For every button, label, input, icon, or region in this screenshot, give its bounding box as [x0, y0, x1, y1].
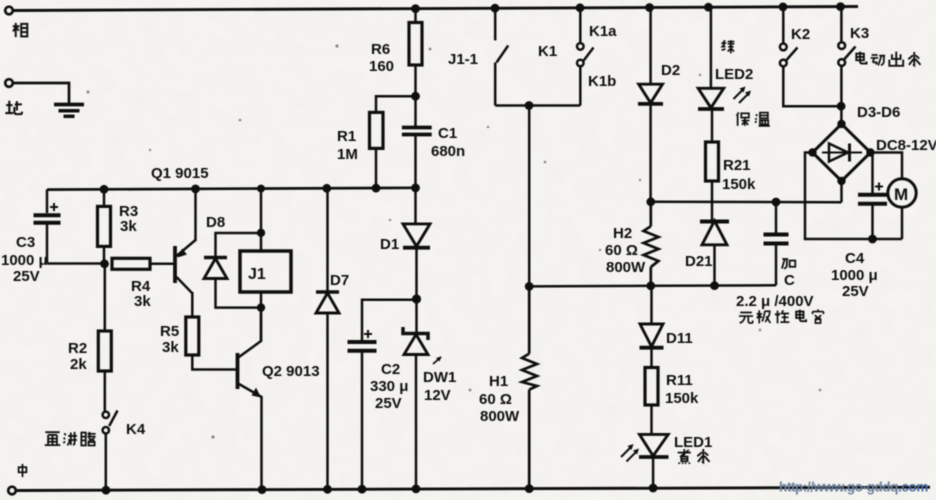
label R3: [119, 203, 138, 235]
label C3 value: [1, 234, 48, 285]
svg-text:25V: 25V: [375, 395, 402, 412]
node C2 bottom rail: [358, 485, 367, 494]
label 煮水: [678, 449, 710, 464]
node R6 bottom: [411, 92, 420, 101]
resistor R21: [706, 142, 719, 221]
svg-text:C3: C3: [16, 234, 35, 251]
svg-text:D11: D11: [666, 330, 693, 347]
svg-text:2k: 2k: [70, 356, 87, 373]
svg-text:R2: R2: [68, 340, 87, 357]
wire supply rail y189: [47, 188, 417, 190]
svg-text:800W: 800W: [480, 408, 520, 425]
switch K2: [780, 7, 841, 106]
wire top rail: [13, 7, 859, 11]
transistor Q1: [175, 189, 196, 317]
label 加C: [782, 259, 795, 289]
label 电动出水: [856, 52, 920, 67]
capacitor C5 (2.2u/400V): [764, 202, 789, 285]
node K2/K3 join: [837, 102, 846, 111]
diode D2: [638, 8, 663, 202]
node dot top rail J1-1: [491, 4, 500, 13]
svg-text:D2: D2: [661, 62, 680, 79]
resistor R2: [98, 264, 111, 412]
node dots on supply rail: [100, 184, 420, 194]
switch K4: [103, 411, 118, 491]
transistor Q2: [238, 308, 262, 490]
ground: [54, 105, 84, 117]
LED LED1: [621, 434, 669, 487]
wire node to R1: [376, 96, 416, 112]
node D7 bottom rail: [323, 485, 332, 494]
svg-text:C1: C1: [438, 125, 457, 142]
capacitor C4: [858, 152, 887, 239]
label 无极性电容: [739, 309, 823, 323]
svg-text:R21: R21: [723, 157, 751, 174]
label H2: [605, 225, 646, 276]
wire J1-1/K1 bottom: [495, 104, 580, 107]
svg-text:J1: J1: [248, 266, 266, 283]
wire to ground: [13, 83, 69, 103]
svg-text:R11: R11: [666, 372, 693, 389]
node J1 bottom: [257, 303, 265, 311]
capacitor C3: [34, 190, 61, 264]
svg-text:1000 μ: 1000 μ: [831, 267, 878, 284]
label 再沸腾: [45, 432, 96, 446]
heater H1: [522, 286, 537, 488]
label 地: [5, 101, 22, 114]
diode D7: [316, 189, 339, 490]
svg-text:D1: D1: [380, 236, 399, 253]
svg-text:25V: 25V: [13, 268, 40, 285]
diode D8: [204, 233, 261, 308]
node DW1 bottom rail: [412, 485, 421, 494]
svg-text:M: M: [894, 185, 908, 204]
terminal 地 (earth): [5, 79, 13, 87]
relay coil J1: [240, 189, 291, 342]
terminal 相 (phase): [5, 7, 13, 15]
svg-text:K4: K4: [126, 421, 146, 438]
label C2: [370, 361, 408, 412]
label DW1: [423, 369, 456, 404]
svg-text:1000 μ: 1000 μ: [1, 252, 48, 269]
node Q2 emitter on bottom rail: [258, 485, 267, 494]
label 保温: [737, 112, 770, 126]
label R1: [337, 128, 358, 163]
diode D11: [640, 286, 664, 368]
wire H1 column upper: [528, 106, 531, 287]
resistor R11: [645, 368, 658, 435]
svg-text:D3-D6: D3-D6: [857, 104, 900, 121]
node dot top rail K3: [836, 2, 845, 11]
svg-text:C2: C2: [381, 361, 400, 378]
node D1 bottom / C2 top: [412, 294, 421, 303]
node LED1 bottom rail: [649, 484, 658, 493]
svg-text:3k: 3k: [162, 339, 179, 356]
label R6: [369, 41, 394, 75]
svg-text:K3: K3: [850, 25, 869, 42]
svg-text:C: C: [784, 272, 795, 289]
svg-text:R1: R1: [337, 128, 356, 145]
svg-text:1M: 1M: [337, 146, 358, 163]
label R2: [68, 340, 87, 373]
wire bridge right to motor top: [871, 153, 903, 180]
node J1 top: [257, 229, 265, 237]
bridge rectifier D3-D6: [813, 124, 871, 181]
svg-text:K1: K1: [538, 43, 557, 60]
svg-text:3k: 3k: [134, 293, 151, 310]
node dot top rail D2: [645, 3, 654, 12]
svg-text:LED2: LED2: [715, 66, 753, 83]
zener diode DW1: [403, 300, 442, 489]
node H1 bottom rail: [525, 484, 534, 493]
svg-text:680n: 680n: [431, 143, 465, 160]
svg-text:K1b: K1b: [588, 73, 616, 90]
diode D1: [403, 188, 430, 298]
wire C3 bottom to node: [47, 262, 104, 265]
terminal 中 (neutral): [8, 487, 16, 495]
svg-text:60 Ω: 60 Ω: [479, 391, 512, 408]
svg-text:C4: C4: [845, 250, 865, 267]
node dot top rail K1: [576, 3, 585, 12]
svg-text:2.2 μ /400V: 2.2 μ /400V: [736, 293, 814, 310]
node D2 bottom: [646, 197, 655, 206]
wire bridge bottom to rail: [840, 181, 843, 202]
svg-text:K2: K2: [791, 26, 810, 43]
LED LED2: [698, 7, 751, 142]
capacitor C1: [402, 128, 432, 188]
svg-text:150k: 150k: [722, 176, 756, 193]
capacitor C2: [348, 330, 377, 489]
svg-text:R6: R6: [371, 41, 390, 58]
label C1: [431, 125, 465, 160]
svg-text:LED1: LED1: [674, 434, 712, 451]
wire rail y286: [529, 285, 776, 286]
svg-text:160: 160: [369, 58, 394, 75]
label R5: [160, 323, 179, 356]
svg-text:25V: 25V: [842, 283, 869, 300]
switch K3: [838, 7, 855, 123]
node H2 bottom: [646, 281, 655, 290]
switch K1: [577, 8, 594, 106]
label R21: [722, 157, 756, 193]
label 绿: [722, 40, 735, 53]
wire bottom rail: [16, 487, 931, 490]
svg-text:12V: 12V: [424, 387, 451, 404]
svg-text:Q1 9015: Q1 9015: [151, 165, 209, 182]
label H1: [479, 373, 520, 425]
resistor R4: [112, 258, 174, 269]
heater H2: [644, 202, 659, 286]
label 中: [19, 464, 27, 477]
svg-text:60 Ω: 60 Ω: [605, 242, 638, 259]
svg-text:J1-1: J1-1: [448, 51, 478, 68]
node A (R3/R4/C3/R2 junction): [100, 259, 109, 268]
resistor R5: [186, 317, 236, 370]
node dot top rail LED2: [704, 3, 713, 12]
node C4 bottom: [868, 235, 877, 244]
wire to C2: [362, 300, 417, 341]
svg-text:3k: 3k: [120, 218, 137, 235]
node K4 on bottom rail: [102, 486, 111, 495]
bridge corner nodes: [808, 120, 874, 185]
svg-text:http://www.go-gddq.com: http://www.go-gddq.com: [779, 480, 928, 495]
node D21 bottom: [710, 281, 719, 290]
svg-text:K1a: K1a: [589, 23, 617, 40]
zener diode D21: [700, 221, 729, 286]
resistor R3: [98, 190, 111, 264]
label R11: [665, 372, 699, 407]
svg-text:D8: D8: [206, 214, 225, 231]
label 相: [13, 23, 28, 37]
svg-text:H1: H1: [489, 373, 508, 390]
node C5 top: [772, 198, 781, 207]
svg-text:R5: R5: [160, 323, 179, 340]
resistor R1: [370, 112, 384, 188]
node dot top rail R6: [411, 4, 420, 13]
label C4: [831, 250, 878, 300]
svg-text:150k: 150k: [665, 390, 699, 407]
svg-text:330 μ: 330 μ: [370, 378, 408, 395]
node H1 mid: [525, 282, 534, 291]
wire rail y202: [651, 201, 842, 204]
motor M: [888, 179, 916, 239]
svg-text:D21: D21: [685, 253, 713, 270]
resistor R6: [409, 8, 422, 126]
node dot top rail K2: [779, 3, 788, 12]
svg-text:800W: 800W: [606, 259, 646, 276]
svg-text:Q2 9013: Q2 9013: [262, 363, 320, 380]
relay contact J1-1: [495, 8, 508, 106]
svg-text:DW1: DW1: [423, 369, 456, 386]
wire bridge left to DC minus rail: [805, 153, 902, 240]
svg-text:H2: H2: [613, 225, 632, 242]
label R4: [131, 278, 151, 310]
svg-text:D7: D7: [330, 272, 349, 289]
node H1 top: [525, 101, 534, 110]
